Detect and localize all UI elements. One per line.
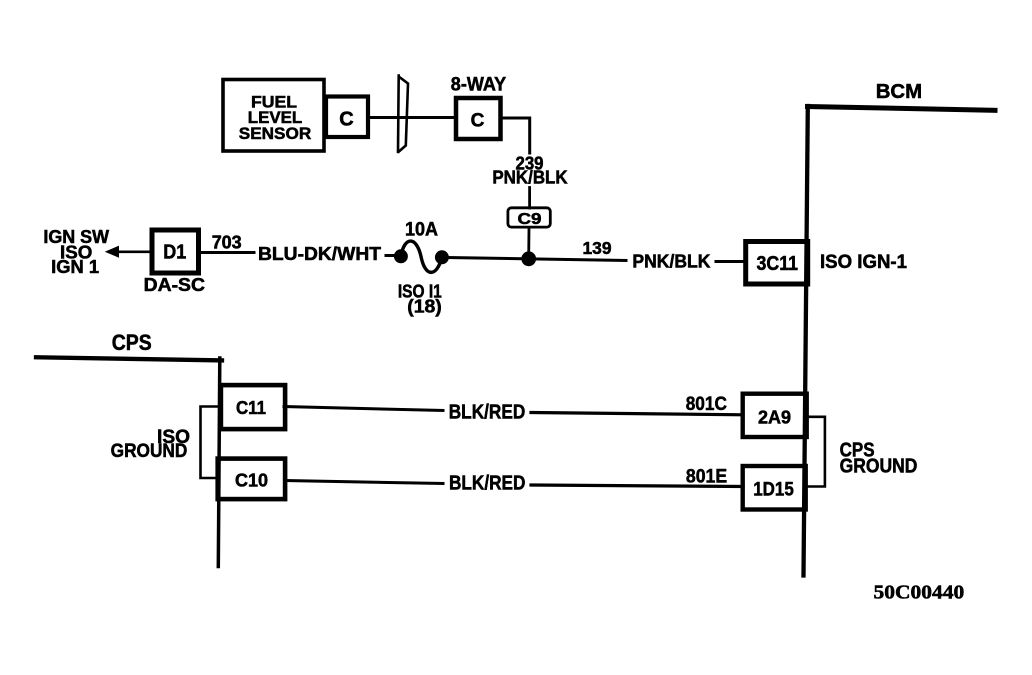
junction dot at C9 drop	[521, 251, 536, 266]
wire from sensor connector to 8-way connector	[370, 116, 454, 119]
wire BLK/RED to 1D15	[531, 485, 743, 487]
svg-text:GROUND: GROUND	[111, 440, 188, 462]
wire from 8-way connector down to label 239	[501, 118, 530, 153]
svg-text:BLU-DK/WHT: BLU-DK/WHT	[258, 244, 381, 264]
connector C (8-way)	[456, 98, 501, 139]
connector D1	[152, 230, 199, 273]
in-line connector grommet symbol	[398, 76, 408, 152]
wire from C9 to junction	[527, 228, 530, 257]
svg-text:801C: 801C	[686, 393, 727, 415]
connector C9	[508, 208, 550, 228]
svg-text:C10: C10	[235, 471, 268, 491]
svg-text:CPS: CPS	[112, 330, 152, 355]
svg-text:8-WAY: 8-WAY	[451, 75, 507, 96]
svg-text:BCM: BCM	[876, 80, 922, 103]
label ISO I1 (18)	[398, 281, 442, 316]
svg-text:C: C	[471, 111, 485, 132]
wire BLK/RED to 2A9	[531, 413, 743, 415]
label 239 PNK/BLK	[492, 153, 567, 187]
svg-text:1D15: 1D15	[753, 479, 794, 501]
wire from fuse to PNK/BLK label	[447, 258, 626, 261]
BCM top rail	[808, 107, 996, 111]
svg-text:801E: 801E	[686, 466, 727, 488]
svg-text:PNK/BLK: PNK/BLK	[632, 251, 710, 271]
wire C11 to BLK/RED label	[284, 407, 443, 411]
wire C10 to BLK/RED label	[285, 481, 443, 484]
BCM vertical rail	[804, 106, 808, 576]
svg-text:D1: D1	[163, 242, 186, 264]
svg-text:139: 139	[583, 238, 612, 258]
CPS top rail	[36, 357, 222, 360]
connector C10	[218, 459, 285, 500]
fuel level sensor box	[223, 80, 324, 152]
svg-text:C: C	[339, 109, 353, 131]
svg-text:DA-SC: DA-SC	[144, 275, 205, 295]
svg-text:SENSOR: SENSOR	[239, 124, 311, 143]
svg-text:PNK/BLK: PNK/BLK	[492, 168, 567, 188]
fuse ISO I1 10A	[394, 241, 449, 272]
wire from D1 to BLU-DK/WHT label	[199, 251, 255, 254]
svg-text:C11: C11	[236, 398, 266, 418]
connector 1D15	[743, 466, 806, 510]
svg-text:(18): (18)	[407, 297, 442, 317]
arrow to IGN SW	[105, 246, 152, 258]
svg-text:50C00440: 50C00440	[874, 581, 965, 603]
connector C (fuel level sensor)	[326, 97, 368, 138]
svg-text:703: 703	[212, 232, 242, 252]
label CPS GROUND	[840, 440, 918, 478]
label ISO GROUND	[111, 426, 190, 462]
svg-text:2A9: 2A9	[758, 407, 791, 428]
svg-text:C9: C9	[518, 211, 542, 228]
svg-text:IGN 1: IGN 1	[51, 257, 99, 277]
svg-text:3C11: 3C11	[757, 253, 799, 275]
svg-text:10A: 10A	[405, 218, 438, 240]
svg-text:GROUND: GROUND	[840, 455, 918, 477]
connector C11	[221, 385, 285, 429]
wire segment from label to C9	[528, 188, 531, 209]
ISO GROUND bracket	[201, 407, 221, 479]
svg-text:ISO IGN-1: ISO IGN-1	[820, 252, 907, 273]
svg-text:BLK/RED: BLK/RED	[449, 473, 526, 495]
node label IGN SW ISO IGN 1	[43, 227, 109, 277]
wire to fuse	[386, 254, 398, 257]
connector 3C11	[746, 242, 808, 285]
CPS vertical rail	[218, 358, 220, 567]
svg-text:BLK/RED: BLK/RED	[449, 402, 526, 424]
connector 2A9	[743, 394, 807, 437]
wire from PNK/BLK to 3C11	[716, 260, 746, 263]
CPS GROUND bracket	[805, 417, 825, 487]
